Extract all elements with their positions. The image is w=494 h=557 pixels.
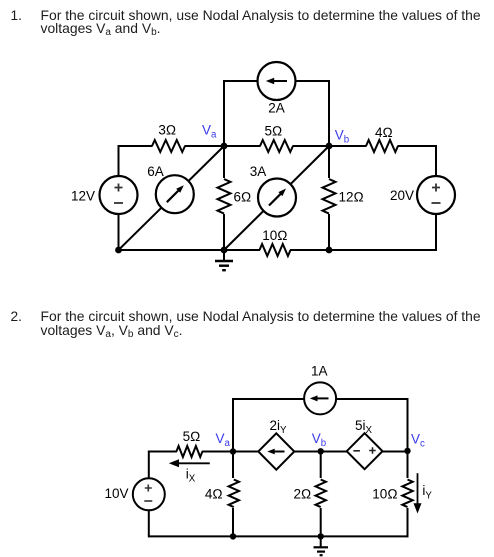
current source 6A: [156, 175, 194, 213]
svg-text:20V: 20V: [390, 188, 414, 203]
wire: Va vertical branch (6-ohm): [223, 146, 225, 250]
resistor 2ohm (vertical): [314, 478, 327, 508]
label 2iY: [270, 418, 288, 436]
svg-text:2A: 2A: [268, 101, 285, 116]
svg-text:3Ω: 3Ω: [158, 122, 176, 137]
node bottom Va dot (circuit 2): [230, 533, 236, 539]
node bottom-center (ground) dot: [221, 247, 228, 254]
wire: circuit1 right rail (20V branch): [435, 145, 437, 251]
svg-text:10Ω: 10Ω: [372, 486, 397, 501]
label Vc (circuit 2): [411, 432, 425, 450]
svg-text:iX: iX: [186, 466, 196, 484]
resistor 10ohm: [260, 242, 291, 258]
node Va dot (circuit 2): [230, 448, 236, 454]
svg-text:5Ω: 5Ω: [183, 429, 201, 444]
node Va dot: [221, 143, 228, 150]
resistor 4ohm: [366, 138, 398, 154]
svg-text:12V: 12V: [71, 189, 95, 204]
wire: circuit2 middle rail: [149, 451, 408, 453]
wire: 1A loop top rail: [232, 398, 409, 400]
label 2 ohm: [294, 486, 312, 501]
wire: circuit1 bottom rail: [119, 249, 437, 251]
label Va (circuit 2): [216, 431, 231, 449]
svg-text:iY: iY: [422, 483, 432, 501]
problem 2 text: [41, 310, 493, 340]
wire: Vc down branch (10-ohm): [407, 452, 409, 538]
dependent source 2iY (diamond): [258, 433, 294, 469]
node Vb dot: [326, 143, 333, 150]
arrow iY (current direction): [414, 473, 422, 513]
voltage source 20V: [417, 176, 455, 214]
label 4 ohm: [375, 125, 393, 140]
resistor 5ohm: [260, 138, 293, 154]
problem 1 text: [41, 9, 493, 39]
label 10 ohm: [262, 228, 287, 243]
label 1A: [311, 363, 328, 378]
svg-text:6Ω: 6Ω: [234, 190, 252, 205]
svg-text:2iY: 2iY: [270, 418, 288, 436]
label Va (node voltage): [202, 123, 217, 141]
svg-text:10V: 10V: [104, 486, 128, 501]
svg-text:Va: Va: [202, 123, 217, 141]
label 4 ohm (circuit 2): [205, 486, 223, 501]
problem 1 number: [11, 9, 22, 22]
current source 2A: [258, 62, 296, 100]
wire: 1A loop right vertical (down to Vc): [407, 398, 409, 452]
svg-text:Va: Va: [216, 431, 231, 449]
current source 1A: [304, 382, 336, 414]
wire: circuit1 left rail (12V branch): [118, 145, 120, 251]
label 6A: [147, 164, 164, 179]
svg-text:2Ω: 2Ω: [294, 486, 312, 501]
dependent source 5iX (diamond): [347, 433, 383, 469]
label 6 ohm: [234, 190, 252, 205]
svg-text:Vb: Vb: [312, 431, 326, 449]
wire: Va down branch (4-ohm): [232, 452, 234, 537]
label Vb (circuit 2): [312, 431, 326, 449]
svg-text:4Ω: 4Ω: [375, 125, 393, 140]
label Vb (node voltage): [335, 127, 349, 145]
wire: Vb down branch (2-ohm): [320, 452, 322, 537]
wire: circuit2 bottom rail: [149, 535, 408, 537]
voltage source 12V: [100, 176, 138, 214]
node Vb dot (circuit 2): [318, 448, 324, 454]
resistor 10ohm (circuit 2, vertical): [401, 478, 414, 508]
node bottom-left dot: [115, 247, 122, 254]
wire: circuit1 top rail: [119, 145, 437, 147]
wire: 1A loop left vertical (Va up): [232, 399, 234, 452]
label iY: [422, 483, 432, 501]
wire: diagonal through 3A source: [224, 146, 329, 250]
svg-text:10Ω: 10Ω: [262, 228, 287, 243]
svg-text:Vc: Vc: [411, 432, 425, 450]
node Vc dot (circuit 2): [404, 448, 410, 454]
wire: circuit2 left rail (10V branch): [148, 451, 150, 538]
wire: 2A source loop Va-up-over-down-Vb: [224, 81, 329, 146]
label 5 ohm: [265, 124, 283, 139]
resistor 12ohm (vertical): [321, 178, 337, 214]
node bottom Vb / ground dot (circuit 2): [318, 533, 324, 539]
label 12V: [71, 189, 95, 204]
label 20V: [390, 188, 414, 203]
ground (circuit 1): [215, 250, 233, 270]
ground (circuit 2): [314, 536, 329, 555]
problem 2 number: [11, 310, 22, 323]
resistor 3ohm: [152, 138, 185, 154]
label 3 ohm: [158, 122, 176, 137]
svg-text:4Ω: 4Ω: [205, 486, 223, 501]
label 3A: [250, 164, 267, 179]
svg-text:3A: 3A: [250, 164, 267, 179]
resistor 5ohm (circuit 2): [176, 445, 202, 459]
node bottom Vb dot: [326, 247, 333, 254]
arrow iX (current direction): [169, 459, 210, 467]
current source 3A: [258, 179, 296, 217]
resistor 4ohm (circuit 2, vertical): [227, 478, 240, 508]
svg-text:6A: 6A: [147, 164, 164, 179]
label 5iX: [355, 418, 373, 436]
label 12 ohm: [339, 189, 364, 204]
svg-text:12Ω: 12Ω: [339, 189, 364, 204]
label 10 ohm (circuit 2): [372, 486, 397, 501]
label 2A: [268, 101, 285, 116]
label 10V: [104, 486, 128, 501]
resistor 6ohm (vertical): [216, 178, 232, 214]
voltage source 10V: [133, 478, 165, 510]
svg-text:5Ω: 5Ω: [265, 124, 283, 139]
svg-text:Vb: Vb: [335, 127, 349, 145]
wire: Vb vertical branch (12-ohm): [328, 146, 330, 250]
wire: diagonal through 6A source: [119, 146, 225, 250]
label iX: [186, 466, 196, 484]
svg-text:1A: 1A: [311, 363, 328, 378]
label 5 ohm (circuit 2): [183, 429, 201, 444]
